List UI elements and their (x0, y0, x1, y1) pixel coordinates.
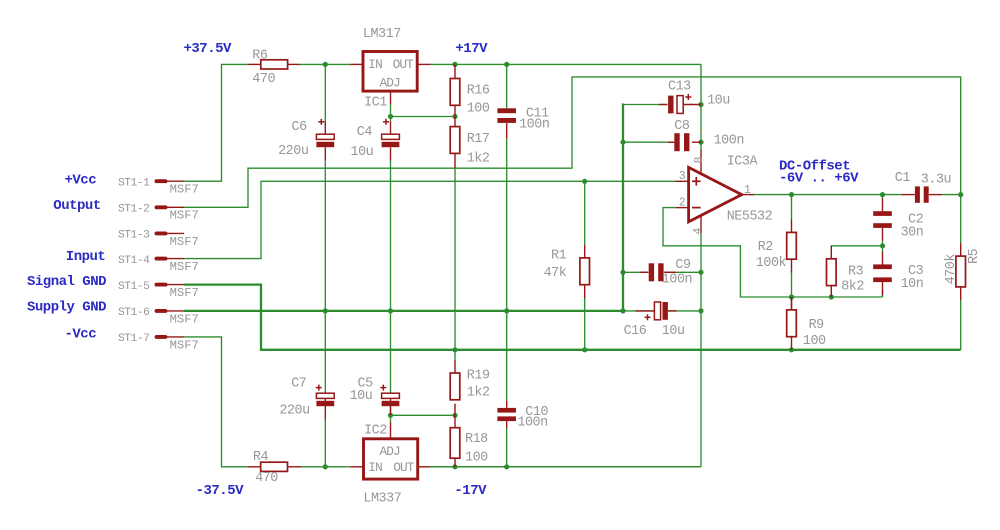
wire net +37.5V (ST1-1 to R6 to LM317 IN) (184, 64, 350, 181)
svg-text:-Vcc: -Vcc (65, 326, 97, 342)
svg-text:Output: Output (53, 198, 101, 214)
svg-text:30n: 30n (901, 225, 924, 240)
net label -17V (454, 483, 487, 499)
svg-text:100n: 100n (714, 133, 744, 148)
capacitor C3 (10n) (873, 252, 923, 296)
capacitor C6 (220u polarized) (278, 119, 334, 161)
connector pin ST1-5 (118, 281, 199, 300)
svg-text:470k: 470k (944, 254, 959, 285)
svg-text:220u: 220u (278, 144, 308, 159)
svg-text:R17: R17 (467, 132, 490, 147)
svg-text:R16: R16 (467, 84, 490, 99)
svg-text:10u: 10u (350, 389, 373, 404)
svg-text:1k2: 1k2 (467, 152, 490, 167)
svg-text:MSF7: MSF7 (170, 209, 199, 223)
svg-text:100: 100 (465, 450, 488, 465)
wire C13 row (624, 104, 667, 106)
connector pin ST1-1 (118, 177, 199, 196)
svg-text:-37.5V: -37.5V (196, 483, 245, 499)
svg-text:R18: R18 (465, 432, 488, 447)
svg-text:47k: 47k (544, 266, 567, 281)
resistor R17 (450, 117, 490, 169)
svg-text:ST1-2: ST1-2 (118, 204, 149, 216)
junction +17V at C11 (504, 62, 509, 67)
wire C9 row (623, 271, 701, 273)
resistor R18 (450, 415, 488, 467)
op-amp IC3A NE5532 (676, 149, 773, 234)
svg-text:MSF7: MSF7 (170, 286, 199, 300)
junction Supply GND at C6/C7 (323, 308, 328, 313)
svg-text:1k2: 1k2 (467, 386, 490, 401)
net label Input (66, 249, 106, 265)
svg-text:R4: R4 (253, 450, 269, 465)
capacitor C13 (10u polarized) (659, 79, 730, 113)
resistor R19 (450, 360, 490, 415)
net label Signal GND (27, 274, 106, 290)
capacitor C8 (100n) (668, 119, 744, 151)
svg-text:ST1-6: ST1-6 (118, 307, 150, 319)
svg-text:C4: C4 (357, 125, 373, 140)
wire C7 column (324, 311, 326, 467)
wire net ADJ1 (LM317 ADJ to R16/R17) (391, 104, 456, 122)
junction decoupling at C8 left (620, 140, 625, 145)
net label Output (53, 198, 101, 214)
svg-text:ST1-1: ST1-1 (118, 177, 150, 189)
svg-text:220u: 220u (279, 404, 309, 419)
svg-text:+37.5V: +37.5V (184, 41, 233, 57)
wire net INPUT (ST1-4 riser to op-amp pin 3) (184, 181, 676, 258)
svg-text:10u: 10u (351, 145, 374, 160)
junction Signal GND at R17/R19 divider (452, 347, 457, 352)
net label -37.5V (196, 483, 245, 499)
junction ADJ1 at R16/R17 (452, 114, 457, 119)
svg-text:1: 1 (744, 184, 751, 197)
junction INPUT at R1 top (582, 179, 587, 184)
net label Supply GND (27, 299, 106, 315)
wire R9 pins (791, 297, 793, 310)
wire C3 column (882, 246, 884, 252)
resistor R3 (827, 246, 865, 297)
svg-text:OUT: OUT (393, 460, 415, 475)
svg-text:R2: R2 (758, 240, 774, 255)
svg-text:C8: C8 (674, 119, 690, 134)
resistor R5 (944, 243, 982, 300)
connector pin ST1-7 (118, 333, 199, 352)
junction feedback at R2 bottom (789, 294, 794, 299)
wire op-amp output node (pin 1 to C1, R2, C2) (754, 194, 961, 196)
net label +17V (455, 41, 488, 57)
svg-text:MSF7: MSF7 (170, 260, 199, 274)
capacitor C1 (3.3u) (895, 171, 951, 203)
svg-text:R3: R3 (848, 265, 864, 280)
connector pin ST1-3 (118, 230, 199, 249)
wire R2 column (791, 195, 793, 297)
voltage regulator IC1 LM317 (350, 27, 430, 110)
svg-text:8: 8 (692, 157, 706, 164)
wire net -17V (LM337 OUT rail) (430, 466, 701, 468)
junction ADJ2 at R19/R18 (452, 413, 457, 418)
svg-text:ST1-7: ST1-7 (118, 333, 149, 345)
svg-text:NE5532: NE5532 (727, 209, 773, 224)
svg-text:2: 2 (679, 197, 686, 210)
wire net +17V (LM317 OUT rail to op-amp pin 8) (430, 64, 701, 149)
wire decoupling column (C13/C8/C9 left, to Supply GND) (622, 105, 625, 311)
junction +17V at C13 right (698, 102, 703, 107)
junction output at C2 top (880, 192, 885, 197)
capacitor C9 (100n) (640, 258, 692, 288)
junction C2/C3 node (880, 243, 885, 248)
svg-text:IC1: IC1 (364, 95, 387, 110)
capacitor C7 (220u polarized) (279, 377, 334, 420)
svg-text:C16: C16 (624, 324, 647, 339)
svg-text:R19: R19 (467, 369, 490, 384)
svg-text:Signal GND: Signal GND (27, 274, 106, 290)
svg-text:+17V: +17V (455, 41, 488, 57)
svg-text:4: 4 (691, 228, 705, 235)
resistor R2 (756, 219, 797, 272)
resistor R16 (450, 64, 490, 116)
junction -17V at C10 (504, 464, 509, 469)
svg-text:OUT: OUT (393, 57, 415, 72)
wire R5 column (960, 195, 962, 350)
junction V- at C9 right (698, 270, 703, 275)
junction V- at C16 right (698, 308, 703, 313)
svg-text:C6: C6 (292, 120, 308, 135)
connector pin ST1-2 (118, 204, 199, 223)
wire C8 row (623, 141, 674, 143)
junction +17V at R16 (452, 62, 457, 67)
svg-text:100n: 100n (517, 415, 547, 430)
capacitor C2 (30n) (873, 198, 923, 240)
connector pin ST1-4 (118, 255, 199, 274)
svg-text:100n: 100n (519, 117, 549, 132)
svg-text:+Vcc: +Vcc (65, 172, 97, 188)
wire net OUTPUT (ST1-2 riser, long run, top run, down to C1 node) (184, 77, 961, 207)
svg-text:3.3u: 3.3u (921, 172, 951, 187)
junction Signal GND at R1 bottom (582, 347, 587, 352)
svg-text:MSF7: MSF7 (170, 235, 199, 249)
wire C2 column (882, 195, 884, 246)
svg-text:MSF7: MSF7 (170, 183, 199, 197)
wire net SIGNAL GND (ST1-5, thick) (184, 285, 961, 350)
junction +17V at C8 right (698, 140, 703, 145)
net label -Vcc (65, 326, 97, 342)
svg-text:-17V: -17V (454, 483, 487, 499)
svg-text:C9: C9 (675, 258, 691, 273)
junction decoupling at C9 left (620, 270, 625, 275)
svg-text:10u: 10u (662, 324, 685, 339)
svg-text:Input: Input (66, 249, 106, 265)
svg-text:IN: IN (368, 460, 382, 475)
wire op-amp pin 2 feedback route (663, 208, 883, 297)
svg-text:Supply GND: Supply GND (27, 299, 106, 315)
wire R1 column (584, 181, 586, 349)
svg-text:MSF7: MSF7 (170, 338, 199, 352)
svg-text:ADJ: ADJ (380, 444, 401, 459)
svg-text:ST1-3: ST1-3 (118, 230, 150, 242)
svg-text:100: 100 (467, 101, 490, 116)
svg-text:ST1-4: ST1-4 (118, 255, 150, 267)
capacitor C16 (10u polarized) (624, 302, 685, 339)
voltage regulator IC2 LM337 (350, 422, 430, 506)
svg-text:R1: R1 (551, 249, 567, 264)
junction feedback at R3 bottom (829, 294, 834, 299)
junction Supply GND at C11/C10 (504, 308, 509, 313)
svg-text:ST1-5: ST1-5 (118, 281, 150, 293)
svg-text:100n: 100n (662, 272, 692, 287)
svg-text:IN: IN (368, 57, 382, 72)
svg-text:8k2: 8k2 (841, 280, 864, 295)
svg-text:10n: 10n (901, 277, 924, 292)
svg-text:100k: 100k (756, 256, 787, 271)
junction decoupling at Supply GND / C16 left (620, 308, 625, 313)
capacitor C5 (10u polarized) (350, 377, 400, 415)
junction output at R2 top (789, 192, 794, 197)
junction Supply GND at C4/C5 (388, 308, 393, 313)
wire net -37.5V (ST1-7 riser to R4 to LM337 IN) (184, 337, 350, 467)
svg-text:-6V .. +6V: -6V .. +6V (779, 171, 859, 187)
wire C4 bottom to Supply GND (390, 160, 392, 311)
svg-text:IC3A: IC3A (727, 155, 759, 170)
junction output at C1 right / R5 (958, 192, 963, 197)
wire net SUPPLY GND (ST1-6, thick) (184, 310, 623, 312)
capacitor C10 (100n) (497, 401, 548, 431)
wire op-amp pin 4 column down to -17V rail (430, 233, 701, 467)
resistor R4 (247, 450, 301, 486)
net label +Vcc (65, 172, 97, 188)
capacitor C4 (10u polarized) (351, 119, 400, 161)
junction ADJ2 at C5 (388, 413, 393, 418)
net label +37.5V (184, 41, 233, 57)
resistor R9 (787, 297, 826, 350)
resistor R1 (544, 245, 590, 298)
svg-text:C7: C7 (291, 377, 306, 392)
svg-text:R6: R6 (252, 49, 268, 64)
wire C5 column (390, 311, 392, 394)
wire net ADJ2 (LM337 ADJ to R19/R18) (391, 406, 456, 422)
svg-text:470: 470 (255, 471, 278, 486)
svg-text:IC2: IC2 (364, 424, 387, 439)
svg-text:R5: R5 (967, 248, 982, 264)
svg-text:10u: 10u (707, 94, 730, 109)
wire C10 column (506, 311, 508, 467)
svg-text:C1: C1 (895, 171, 911, 186)
junction -17V at R18 (452, 464, 457, 469)
svg-text:100: 100 (803, 334, 826, 349)
wire R17-R19 divider column (454, 168, 456, 360)
svg-text:470: 470 (252, 72, 275, 87)
wire C16 row (623, 310, 701, 312)
junction ADJ1 at C4 (388, 114, 393, 119)
svg-text:R9: R9 (809, 318, 825, 333)
junction +37.5V at C6 column (323, 62, 328, 67)
capacitor C11 (100n) (497, 107, 549, 139)
svg-text:ADJ: ADJ (380, 75, 401, 90)
resistor R6 (247, 49, 299, 87)
wire R3 top link (831, 245, 882, 247)
net label DC-Offset (779, 158, 859, 186)
svg-text:LM317: LM317 (363, 27, 401, 42)
junction -37.5V at C7 bottom (323, 464, 328, 469)
connector pin ST1-6 (118, 307, 199, 326)
wire C6 column (+37.5V rail down to Supply GND) (324, 64, 326, 311)
wire C11 column (+17V rail to Supply GND) (506, 64, 508, 311)
junction Signal GND at R9 bottom (789, 347, 794, 352)
svg-text:C13: C13 (668, 79, 691, 94)
svg-text:MSF7: MSF7 (170, 312, 199, 326)
svg-text:LM337: LM337 (363, 492, 401, 507)
svg-text:3: 3 (679, 170, 686, 183)
